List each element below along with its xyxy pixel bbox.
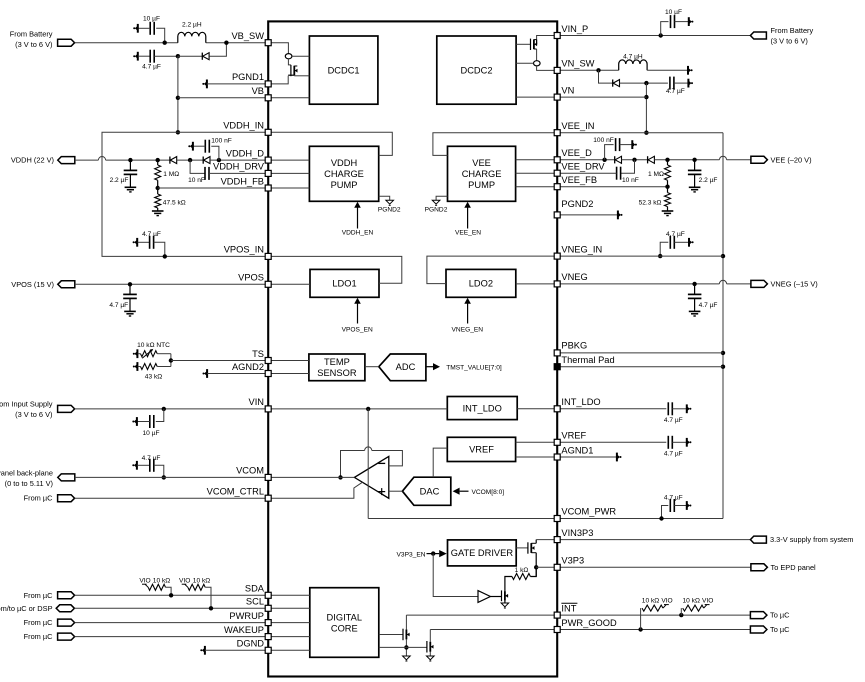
pin VDDH_IN <box>265 129 271 135</box>
svg-text:2.2 µH: 2.2 µH <box>182 22 202 29</box>
terminal From/to uC or DSP (SCL) <box>56 605 74 612</box>
wire VCOM_PWR row <box>368 518 723 520</box>
svg-text:VPOS_EN: VPOS_EN <box>342 327 373 334</box>
block GATE DRIVER <box>448 540 517 566</box>
resistor 47.5 kohm <box>156 186 160 190</box>
svg-text:VDDH_IN: VDDH_IN <box>223 121 264 131</box>
wire VB row <box>178 97 268 99</box>
wire diode to VB_SW node <box>209 43 226 57</box>
pin VB <box>265 95 271 101</box>
svg-text:VDDH: VDDH <box>331 158 357 168</box>
diode VEE 1 <box>614 156 616 163</box>
capacitor 10nF VEE_DRV <box>632 158 636 162</box>
svg-text:4.7 µF: 4.7 µF <box>699 302 718 309</box>
svg-text:VDDH (22 V): VDDH (22 V) <box>11 156 54 165</box>
wire DGND row in <box>268 649 310 651</box>
svg-text:100 nF: 100 nF <box>211 137 232 144</box>
diode VDDH 1 <box>169 157 171 164</box>
wire INT row in <box>406 614 557 616</box>
wire WAKEUP row in <box>268 636 310 638</box>
svg-text:INT: INT <box>561 603 576 613</box>
arrow VNEG_EN <box>467 303 469 324</box>
pin VEE_DRV <box>554 170 560 176</box>
pin VREF <box>554 439 560 445</box>
svg-text:VCOM[8:0]: VCOM[8:0] <box>472 489 505 496</box>
svg-text:VCOM_PWR: VCOM_PWR <box>561 506 616 516</box>
svg-text:From µC: From µC <box>24 494 54 503</box>
svg-text:10 kΩ: 10 kΩ <box>642 598 659 605</box>
wire VEE row hop and terminal <box>719 156 726 160</box>
pin VEE_IN <box>554 130 560 136</box>
wire opamp minus input loop <box>372 451 403 466</box>
svg-text:52.3 kΩ: 52.3 kΩ <box>639 199 662 206</box>
svg-text:10 kΩ: 10 kΩ <box>153 577 170 584</box>
capacitor 4.7uF VREF <box>557 441 666 443</box>
wire VEE_FB row out <box>557 186 667 188</box>
terminal From uC (VCOM_CTRL) <box>58 495 75 502</box>
wire PWRUP row in <box>268 622 310 624</box>
block ADC <box>379 354 426 381</box>
svg-text:4.7 µF: 4.7 µF <box>109 302 128 309</box>
pin SCL <box>265 605 271 611</box>
pin VPOS_IN <box>265 253 271 259</box>
svg-text:1 kΩ: 1 kΩ <box>515 567 529 574</box>
svg-text:VIO: VIO <box>139 577 150 584</box>
svg-text:CHARGE: CHARGE <box>324 169 364 179</box>
resistor 10 kohm INT pullup <box>680 608 682 615</box>
pin Thermal Pad <box>554 364 560 370</box>
wire VDDH_IN outer loop <box>102 132 268 256</box>
svg-text:DCDC2: DCDC2 <box>460 65 492 75</box>
resistor 10 kohm PWR_GOOD pullup <box>640 608 642 629</box>
svg-text:10 kΩ: 10 kΩ <box>682 598 699 605</box>
arrow VEE_EN <box>467 207 469 229</box>
wire VPOS_IN to LDO1 <box>268 256 402 283</box>
capacitor 4.7uF VCOM <box>134 463 137 468</box>
transistor pair DCDC1 <box>268 43 288 54</box>
wire VDDH_DRV row in <box>268 172 309 174</box>
wire TS row in <box>268 360 309 362</box>
pin TS <box>265 358 271 364</box>
wire VDDH_FB row <box>158 187 269 189</box>
svg-text:From/to µC or DSP: From/to µC or DSP <box>0 604 53 613</box>
svg-text:10 kΩ: 10 kΩ <box>193 577 210 584</box>
wire VNEG row to LDO2 <box>516 283 557 285</box>
capacitor 10uF VIN_P <box>659 33 663 37</box>
inductor 4.7uH <box>619 60 647 70</box>
wire VCOM feedback vertical <box>367 409 369 519</box>
pin VPOS <box>265 281 271 287</box>
wire VIN3P3 row in <box>536 539 557 541</box>
terminal Panel back-plane <box>58 474 75 481</box>
capacitor 2.2uF VEE <box>692 158 696 162</box>
resistor 1 kohm <box>512 574 530 580</box>
wire VEE_IN row out <box>557 132 723 134</box>
wire inductor to ground <box>647 69 688 71</box>
capacitor 4.7uF INT_LDO <box>557 408 666 410</box>
svg-text:VN: VN <box>561 85 574 95</box>
svg-text:TEMP: TEMP <box>324 357 350 367</box>
svg-text:Panel back-plane: Panel back-plane <box>0 468 53 477</box>
wire INT_LDO out <box>517 408 557 410</box>
svg-text:To µC: To µC <box>770 625 790 634</box>
wire VB node vertical <box>177 56 179 132</box>
terminal From uC (WAKEUP) <box>58 633 75 640</box>
pin VIN_P <box>554 33 560 39</box>
svg-text:PUMP: PUMP <box>331 180 358 190</box>
wire VN node vertical <box>645 83 647 133</box>
svg-text:(3 V to 6 V): (3 V to 6 V) <box>771 36 808 45</box>
ground AGND2 <box>204 371 207 376</box>
svg-text:TS: TS <box>252 349 264 359</box>
svg-text:GATE DRIVER: GATE DRIVER <box>451 548 514 558</box>
pin VIN <box>265 406 271 412</box>
terminal To EPD panel <box>751 564 768 571</box>
pin VCOM_PWR <box>554 516 560 522</box>
ground PGND2 stub VDDH CP <box>379 196 390 200</box>
svg-text:DIGITAL: DIGITAL <box>327 612 362 622</box>
arrow VCOM[8:0] into DAC <box>453 488 460 495</box>
svg-text:VDDH_D: VDDH_D <box>226 148 265 158</box>
inductor 2.2uH <box>178 32 206 42</box>
svg-text:10 nF: 10 nF <box>188 177 205 184</box>
svg-text:PGND2: PGND2 <box>425 207 448 214</box>
wire VEE_IN to charge pump <box>433 133 557 156</box>
wire V3P3_EN to gate driver <box>427 553 440 555</box>
capacitor 4.7uF VB input <box>135 54 138 59</box>
resistor 52.3 kohm <box>667 187 669 193</box>
pin VN_SW <box>554 67 560 73</box>
svg-text:CORE: CORE <box>331 623 358 633</box>
capacitor 100nF VEE_D <box>602 158 606 162</box>
pin VNEG <box>554 281 560 287</box>
wire VDDH_IN to charge pump <box>268 132 392 155</box>
pin DGND <box>265 647 271 653</box>
svg-text:ADC: ADC <box>396 362 416 372</box>
wire VN_SW row out <box>557 69 619 71</box>
pin VN <box>554 94 560 100</box>
resistor 1 Mohm VDDH <box>156 158 160 162</box>
block INT_LDO <box>447 397 517 420</box>
wire SCL row <box>74 607 268 609</box>
buffer amplifier <box>478 591 490 603</box>
svg-text:PWRUP: PWRUP <box>229 611 264 621</box>
wire Thermal Pad row out <box>557 366 723 368</box>
svg-text:VN_SW: VN_SW <box>561 59 594 69</box>
capacitor 100nF VDDH_D <box>188 158 192 162</box>
terminal VNEG (-15 V) <box>751 280 768 287</box>
svg-text:VEE_D: VEE_D <box>561 148 592 158</box>
svg-text:VDDH_EN: VDDH_EN <box>342 230 374 237</box>
svg-text:43 kΩ: 43 kΩ <box>145 374 162 381</box>
svg-text:3.3-V supply from system: 3.3-V supply from system <box>770 535 853 544</box>
wire VEE_D row in <box>516 159 558 161</box>
wire VNEG row out <box>557 283 719 285</box>
pin WAKEUP <box>265 634 271 640</box>
transistor INT open drain <box>379 634 403 636</box>
ground PGND1 <box>204 81 207 86</box>
block LDO1 <box>310 269 379 297</box>
svg-text:To EPD panel: To EPD panel <box>771 563 817 572</box>
svg-text:SENSOR: SENSOR <box>317 368 357 378</box>
svg-text:AGND2: AGND2 <box>232 362 264 372</box>
wire VDDH_FB row in <box>268 187 309 189</box>
wire VIN_P row out <box>557 35 750 37</box>
pin VDDH_DRV <box>265 170 271 176</box>
block DAC <box>402 477 450 505</box>
svg-text:VB_SW: VB_SW <box>231 31 264 41</box>
svg-text:VREF: VREF <box>469 445 494 455</box>
svg-text:4.7 µF: 4.7 µF <box>142 231 161 238</box>
wire VNEG_IN row out <box>557 255 723 257</box>
diode VB boost <box>178 55 202 57</box>
wire VCOM row <box>75 476 268 478</box>
svg-text:Thermal Pad: Thermal Pad <box>561 355 614 365</box>
svg-text:PUMP: PUMP <box>468 180 495 190</box>
svg-text:VDDH_DRV: VDDH_DRV <box>213 162 265 172</box>
svg-text:VNEG: VNEG <box>561 272 587 282</box>
svg-text:10 kΩ NTC: 10 kΩ NTC <box>137 342 170 349</box>
terminal From uC (PWRUP) <box>58 619 75 626</box>
svg-text:VPOS (15 V): VPOS (15 V) <box>11 280 54 289</box>
svg-text:VNEG (–15 V): VNEG (–15 V) <box>771 279 818 288</box>
svg-text:TMST_VALUE[7:0]: TMST_VALUE[7:0] <box>446 365 502 372</box>
op-amp VCOM amplifier <box>354 456 388 498</box>
svg-text:(0 to to 5.11 V): (0 to to 5.11 V) <box>5 479 53 488</box>
svg-text:VIN: VIN <box>249 397 265 407</box>
capacitor 4.7uF VPOS_IN <box>134 240 137 245</box>
pin VCOM <box>265 474 271 480</box>
svg-text:VEE_FB: VEE_FB <box>561 175 597 185</box>
terminal To uC (INT) <box>750 612 767 619</box>
wire VNEG_IN to LDO2 <box>427 256 557 284</box>
arrow VPOS_EN <box>357 303 359 324</box>
wire INT row out <box>557 614 750 616</box>
svg-text:VEE: VEE <box>472 158 491 168</box>
terminal From Input Supply <box>58 405 75 412</box>
wire PWR_GOOD row in <box>430 629 557 631</box>
pin PWR_GOOD <box>554 627 560 633</box>
pin VB_SW <box>265 40 271 46</box>
capacitor 10uF VB input <box>156 28 165 42</box>
pin VEE_FB <box>554 184 560 190</box>
svg-text:VEE_DRV: VEE_DRV <box>561 162 605 172</box>
transistor pair DCDC2 <box>537 36 558 45</box>
pin V3P3 <box>554 564 560 570</box>
svg-text:PBKG: PBKG <box>561 341 587 351</box>
capacitor 4.7uF VN <box>669 77 671 90</box>
pin AGND1 <box>554 454 560 460</box>
pin VNEG_IN <box>554 253 560 259</box>
svg-text:From µC: From µC <box>24 618 54 627</box>
transistor PWR_GOOD open drain <box>379 646 427 648</box>
svg-text:PGND2: PGND2 <box>378 207 401 214</box>
wire battery to VB_SW pin <box>75 42 178 44</box>
pin VDDH_D <box>265 157 271 163</box>
terminal From Battery (left) <box>58 39 75 46</box>
ground PGND2 stub VEE CP <box>436 196 447 200</box>
block VEE CHARGE PUMP <box>448 146 516 201</box>
terminal VPOS (15 V) <box>58 281 75 288</box>
svg-text:4.7 µF: 4.7 µF <box>664 495 683 502</box>
wire VIN row <box>75 408 269 410</box>
svg-text:PGND1: PGND1 <box>232 72 264 82</box>
capacitor 10uF VIN <box>162 407 166 411</box>
svg-text:SDA: SDA <box>245 584 265 594</box>
terminal VDDH (22 V) <box>58 157 75 164</box>
svg-text:4.7 µF: 4.7 µF <box>666 231 685 238</box>
resistor 1 Mohm VEE <box>665 158 669 162</box>
svg-text:From µC: From µC <box>24 632 54 641</box>
svg-text:VPOS_IN: VPOS_IN <box>224 245 264 255</box>
terminal From Battery (right) <box>750 32 766 39</box>
wire VEE_DRV row in <box>516 172 558 174</box>
svg-text:10 µF: 10 µF <box>143 16 160 23</box>
svg-text:V3P3: V3P3 <box>561 556 584 566</box>
svg-text:4.7 µF: 4.7 µF <box>664 417 683 424</box>
svg-text:VIO: VIO <box>661 598 672 605</box>
diode VDDH 2 <box>202 157 204 164</box>
pin SDA <box>265 592 271 598</box>
svg-text:PGND2: PGND2 <box>561 199 593 209</box>
resistor 43 kohm <box>134 364 137 369</box>
svg-text:VNEG_EN: VNEG_EN <box>452 327 484 334</box>
svg-text:CHARGE: CHARGE <box>462 169 502 179</box>
pin INT_LDO <box>554 406 560 412</box>
block TEMP SENSOR <box>309 354 365 381</box>
wire nmos source to PGND1 <box>288 74 294 76</box>
resistor 10 kohm SDA pullup <box>145 584 148 587</box>
wire VEE_D row out <box>557 159 615 161</box>
wire VCOM_CTRL to opamp <box>268 482 362 498</box>
pin INT <box>554 612 560 618</box>
svg-text:4.7 µF: 4.7 µF <box>142 455 161 462</box>
svg-text:10 µF: 10 µF <box>665 9 682 16</box>
wire temp sensor to ADC <box>365 366 379 368</box>
svg-text:LDO2: LDO2 <box>469 279 493 289</box>
wire AGND1 out <box>516 456 558 458</box>
wire VDDH_D row in <box>268 159 309 161</box>
svg-text:VEE (–20 V): VEE (–20 V) <box>771 155 812 164</box>
pin VCOM_CTRL <box>265 495 271 501</box>
svg-text:LDO1: LDO1 <box>332 279 356 289</box>
block DIGITAL CORE <box>310 588 379 658</box>
ground PGND2 row out <box>557 214 618 216</box>
svg-text:1 MΩ: 1 MΩ <box>648 171 664 178</box>
svg-text:VPOS: VPOS <box>238 273 264 283</box>
wire VIN3P3 row out <box>557 539 750 541</box>
wire VREF out <box>516 441 558 443</box>
wire VEE loop vertical <box>722 133 724 519</box>
svg-text:47.5 kΩ: 47.5 kΩ <box>163 199 186 206</box>
ground AGND1 out <box>557 456 617 458</box>
terminal To uC (PWR_GOOD) <box>750 626 767 633</box>
block DCDC1 <box>309 36 378 104</box>
svg-text:From Battery: From Battery <box>771 26 814 35</box>
svg-text:VIO: VIO <box>179 577 190 584</box>
transistor V3P3 pass fet <box>516 547 528 549</box>
pin VDDH_FB <box>265 185 271 191</box>
svg-text:DAC: DAC <box>420 487 440 497</box>
svg-text:INT_LDO: INT_LDO <box>561 397 600 407</box>
svg-text:From µC: From µC <box>24 591 54 600</box>
svg-text:From Battery: From Battery <box>10 30 53 39</box>
IC boundary <box>268 21 557 676</box>
arrow TMST_VALUE <box>426 366 433 368</box>
wire SDA row in <box>268 594 310 596</box>
svg-text:VIN3P3: VIN3P3 <box>561 528 593 538</box>
transistor V3P3 pulldown <box>490 596 501 598</box>
svg-text:(3 V to 6 V): (3 V to 6 V) <box>15 40 52 49</box>
svg-text:DGND: DGND <box>237 639 265 649</box>
resistor 10 kohm SCL pullup <box>185 584 188 587</box>
capacitor 2.2uF VDDH <box>128 158 132 162</box>
svg-text:VEE_IN: VEE_IN <box>561 121 594 131</box>
svg-text:100 nF: 100 nF <box>593 137 614 144</box>
terminal From uC (SDA) <box>58 592 75 599</box>
wire VPOS row <box>75 283 268 285</box>
svg-text:INT_LDO: INT_LDO <box>463 403 502 413</box>
block LDO2 <box>446 269 516 297</box>
svg-text:VREF: VREF <box>561 431 586 441</box>
wire PWR_GOOD row out <box>557 629 750 631</box>
capacitor 4.7uF VPOS <box>128 282 132 286</box>
svg-text:To µC: To µC <box>770 611 790 620</box>
wire opamp plus input to DAC <box>389 490 403 492</box>
svg-text:10 nF: 10 nF <box>622 177 639 184</box>
wire PWRUP row <box>75 622 269 624</box>
svg-text:WAKEUP: WAKEUP <box>224 625 264 635</box>
pin VIN3P3 <box>554 537 560 543</box>
diode VN <box>599 70 613 83</box>
svg-text:DCDC1: DCDC1 <box>328 65 360 75</box>
wire VPOS row to LDO1 <box>268 283 310 285</box>
wire VREF to DAC <box>433 448 447 477</box>
wire VDDH row <box>75 159 99 161</box>
svg-text:VIN_P: VIN_P <box>561 24 588 34</box>
wire VCOM_CTRL row <box>75 497 269 499</box>
ground DGND <box>202 648 205 653</box>
terminal 3.3-V supply from system <box>750 536 766 543</box>
wire PBKG row out <box>557 352 723 354</box>
svg-text:VCOM: VCOM <box>236 466 264 476</box>
pin PWRUP <box>265 620 271 626</box>
block DCDC2 <box>437 36 516 104</box>
svg-text:PWR_GOOD: PWR_GOOD <box>561 618 617 628</box>
ground V3P3 pulldown source <box>504 600 506 603</box>
pin PGND1 <box>265 81 271 87</box>
wire V3P3 row out <box>557 566 751 568</box>
wire VIN row in <box>268 408 447 410</box>
wire VCOM row in <box>268 476 354 478</box>
svg-text:VCOM_CTRL: VCOM_CTRL <box>207 487 264 497</box>
svg-text:1 MΩ: 1 MΩ <box>163 171 179 178</box>
resistor 10 kohm NTC <box>134 351 137 356</box>
pin VEE_D <box>554 157 560 163</box>
svg-text:4.7 µF: 4.7 µF <box>664 451 683 458</box>
svg-text:2.2 µF: 2.2 µF <box>699 177 718 184</box>
block VDDH CHARGE PUMP <box>309 146 378 201</box>
pin PBKG <box>554 350 560 356</box>
svg-text:V3P3_EN: V3P3_EN <box>397 551 426 558</box>
wire WAKEUP row <box>75 636 269 638</box>
pin AGND2 <box>265 371 271 377</box>
arrow VDDH_EN <box>357 207 359 229</box>
terminal VEE (-20 V) <box>751 156 768 163</box>
svg-text:VEE_EN: VEE_EN <box>455 230 481 237</box>
wire VB to DCDC1 <box>268 97 309 99</box>
svg-text:(3 V to 6 V): (3 V to 6 V) <box>15 410 52 419</box>
